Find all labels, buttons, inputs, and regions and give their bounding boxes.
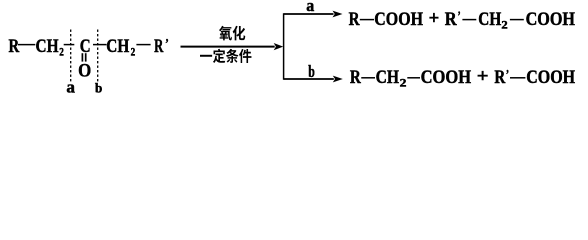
svg-text:CH: CH — [478, 9, 501, 30]
svg-text:R: R — [494, 67, 505, 88]
svg-text:2: 2 — [131, 45, 136, 59]
svg-text:’: ’ — [506, 66, 509, 81]
svg-text:CH: CH — [376, 67, 400, 88]
svg-text:COOH: COOH — [526, 9, 576, 30]
svg-text:2: 2 — [501, 18, 507, 32]
svg-text:2: 2 — [400, 76, 407, 90]
svg-text:R: R — [350, 67, 361, 88]
svg-text:O: O — [78, 61, 91, 82]
svg-text:a: a — [306, 0, 314, 15]
svg-text:R: R — [9, 36, 20, 57]
svg-text:C: C — [80, 36, 91, 57]
svg-text:COOH: COOH — [526, 67, 575, 88]
svg-text:2: 2 — [59, 45, 64, 59]
svg-text:COOH: COOH — [374, 9, 423, 30]
svg-text:R: R — [349, 9, 360, 30]
svg-text:a: a — [66, 77, 75, 96]
svg-text:’: ’ — [165, 35, 169, 50]
svg-text:+: + — [429, 8, 440, 29]
svg-text:b: b — [308, 62, 315, 81]
svg-text:b: b — [95, 80, 102, 95]
svg-text:CH: CH — [36, 36, 59, 57]
svg-text:R: R — [154, 36, 163, 57]
svg-text:+: + — [477, 66, 489, 87]
svg-text:COOH: COOH — [421, 67, 472, 88]
svg-text:R: R — [445, 9, 457, 30]
svg-text:CH: CH — [106, 36, 129, 57]
svg-text:’: ’ — [458, 8, 461, 23]
